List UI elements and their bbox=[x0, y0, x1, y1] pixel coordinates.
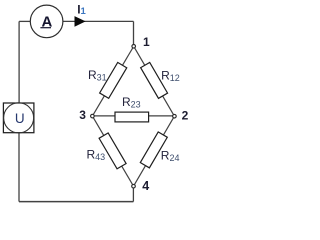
wire left rail bbox=[18, 21, 20, 103]
svg-text:U: U bbox=[15, 111, 25, 126]
ammeter label A underline bbox=[40, 27, 51, 29]
wire horizontal node 3 to node 2 bbox=[92, 115, 174, 117]
wire diagonal node 3 to node 1 bbox=[92, 46, 133, 116]
svg-text:3: 3 bbox=[79, 108, 86, 122]
node 1 bbox=[132, 45, 136, 49]
resistor R24 box bbox=[140, 132, 167, 168]
resistor R31 box bbox=[100, 62, 127, 98]
node 4 bbox=[132, 184, 136, 188]
wire node 4 stem bbox=[132, 188, 134, 202]
wire node 1 stem bbox=[133, 21, 135, 44]
resistor R43 box bbox=[99, 133, 126, 169]
resistor R23 box bbox=[115, 112, 149, 122]
wire diagonal node 1 to node 2 bbox=[134, 46, 175, 116]
node 2 bbox=[173, 114, 177, 118]
wire top rail right segment bbox=[63, 20, 134, 22]
ammeter A1 circle bbox=[30, 5, 63, 38]
wire diagonal node 3 to node 4 bbox=[92, 116, 133, 186]
svg-text:4: 4 bbox=[142, 179, 149, 193]
node 3 bbox=[91, 114, 95, 118]
voltage source U circle bbox=[4, 103, 34, 133]
resistor R12 box bbox=[141, 62, 168, 98]
voltage source U square bbox=[3, 103, 34, 133]
svg-text:2: 2 bbox=[182, 109, 189, 123]
wire bottom rail bbox=[19, 201, 133, 203]
wire top rail left segment bbox=[19, 20, 30, 22]
wire U source bottom to bottom-left corner bbox=[18, 133, 20, 202]
current arrow I1 bbox=[75, 16, 86, 27]
svg-text:1: 1 bbox=[143, 35, 150, 49]
wire diagonal node 2 to node 4 bbox=[134, 116, 175, 186]
